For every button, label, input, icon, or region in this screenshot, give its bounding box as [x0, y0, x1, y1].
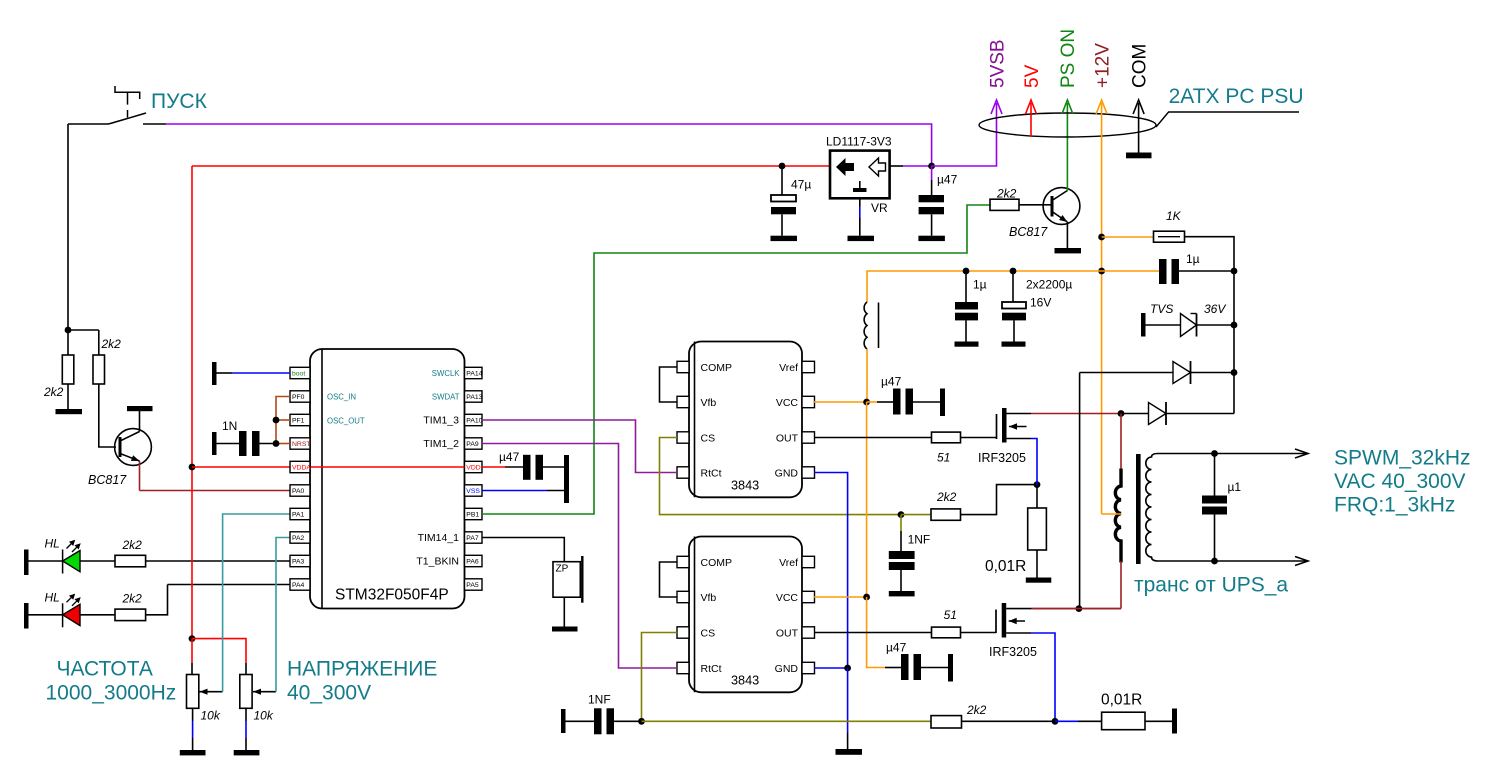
wire RV2 to ground — [245, 708, 247, 721]
wire Q2 collector to PS ON arrow (green) — [1066, 103, 1068, 191]
svg-text:PB1: PB1 — [466, 512, 479, 519]
wire olive to R6 — [901, 514, 931, 516]
svg-text:2k2: 2k2 — [43, 385, 64, 399]
capacitor C5 1µ — [965, 271, 967, 302]
leader line to connector label — [1156, 112, 1299, 127]
resistor R9 51 (lower gate) — [932, 627, 961, 638]
resistor R5 2k2 (PS ON base) — [990, 199, 1019, 210]
capacitor C6 2x2200µ 16V (polarized) — [1012, 271, 1014, 302]
pin COMP of U3 — [677, 556, 689, 567]
svg-text:PF1: PF1 — [292, 418, 305, 425]
wire 5VSB net: switch to regulator output (purple) — [166, 124, 932, 166]
transformer T1 primary winding — [1115, 469, 1121, 563]
wire +12V to C11 (orange) — [1102, 270, 1159, 272]
node junction at top of 2k2 divider — [65, 327, 72, 334]
pin PF0 of U1 — [290, 391, 310, 402]
wire U2 GND (blue) — [814, 473, 848, 669]
ground terminal of green LED — [24, 550, 29, 576]
svg-text:1NF: 1NF — [908, 533, 931, 547]
svg-text:GND: GND — [775, 663, 799, 675]
capacitor C7 1NF — [900, 515, 902, 531]
svg-text:COM: COM — [1129, 44, 1150, 88]
node secondary bottom junction — [1211, 558, 1218, 565]
pin Vref of U2 — [802, 361, 815, 372]
node C11 rail junction — [1231, 268, 1238, 275]
wire left vertical from switch down — [67, 124, 69, 330]
wire PF1 to net (brown) — [276, 419, 290, 421]
svg-text:BC817: BC817 — [88, 473, 127, 487]
svg-text:5VSB: 5VSB — [987, 39, 1008, 88]
pin PA14 of U1 — [465, 367, 483, 378]
resistor R7 51 (upper gate) — [932, 432, 961, 443]
resistor R1 2k2 (vertical) — [62, 355, 74, 384]
node CS sense junction — [898, 511, 905, 518]
svg-text:ЧАСТОТА: ЧАСТОТА — [57, 657, 153, 680]
node TVS rail junction — [1231, 322, 1238, 329]
svg-text:SWCLK: SWCLK — [432, 369, 461, 378]
terminal bar of TVS — [1141, 313, 1146, 337]
pin PA6 of U1 — [465, 555, 483, 566]
pin PA2 of U1 — [290, 532, 310, 543]
wire +12V to primary center tap (orange) — [1102, 513, 1121, 515]
wire R12 to snubber rail — [1185, 237, 1235, 414]
node GND junction — [844, 665, 851, 672]
wire junction to resistor R2 top — [68, 330, 99, 355]
wire transformer primary top (dark red) — [1120, 414, 1122, 471]
wire red branch to VDDA pin — [192, 466, 290, 468]
svg-text:T1_BKIN: T1_BKIN — [416, 555, 459, 567]
pin Vref of U3 — [802, 556, 815, 567]
pin OUT of U3 — [802, 627, 815, 638]
pin NRST of U1 — [290, 438, 310, 449]
wire red supply horizontal to regulator — [192, 165, 830, 167]
arrow COM — [1138, 103, 1140, 153]
wire NRST to net (brown) — [276, 443, 290, 445]
wire red LED to R4 — [80, 614, 115, 616]
svg-text:16V: 16V — [1030, 296, 1051, 310]
wire R1 to ground — [67, 384, 69, 409]
wire secondary bottom output — [1158, 560, 1308, 562]
wire PA1 to RV1 wiper (teal) — [223, 514, 290, 692]
svg-text:PA3: PA3 — [292, 559, 305, 566]
terminal bar right of R11 — [1172, 709, 1177, 734]
op-amp U1 STM32F050F4P body — [310, 349, 465, 609]
voltage regulator VR LD1117-3V3 — [830, 151, 890, 199]
pin PA7 of U1 — [465, 532, 483, 543]
svg-text:+12V: +12V — [1092, 43, 1113, 88]
svg-text:TIM1_2: TIM1_2 — [423, 438, 459, 450]
wire Q3 drain (dark red) — [1031, 413, 1121, 415]
wire RV1 to ground — [192, 708, 194, 721]
wire orange rail to filter caps — [867, 271, 1102, 302]
node 1K branch — [1098, 234, 1105, 241]
svg-text:LD1117-3V3: LD1117-3V3 — [826, 135, 892, 149]
resistor R6 2k2 (sense) — [931, 509, 961, 520]
wire U2 OUT to gate resistor — [814, 437, 932, 439]
connector ellipse 2ATX PC PSU — [979, 113, 1156, 137]
node 1µ cap junction — [963, 268, 970, 275]
pin PA0 of U1 — [290, 485, 310, 496]
wire regulator ground lead — [859, 198, 861, 206]
pin VCC of U3 — [802, 591, 815, 602]
wire boot terminal — [217, 372, 233, 374]
ground bar right of C2 — [564, 455, 569, 503]
ground below C3 — [771, 236, 798, 241]
wire R6 to shunt top — [961, 485, 1038, 515]
svg-text:2k2: 2k2 — [101, 337, 122, 351]
wire TIM1_2 PA9 to U3 RtCt (purple) — [482, 444, 677, 669]
svg-text:CS: CS — [701, 433, 716, 445]
pin PA1 of U1 — [290, 508, 310, 519]
wire switch right lead — [143, 123, 166, 125]
pin CS of U2 — [677, 432, 689, 443]
pin PA13 of U1 — [465, 391, 483, 402]
node 1µ branch — [1098, 268, 1105, 275]
pin PB1 of U1 — [465, 508, 483, 519]
diode D1 TVS 36V — [1146, 324, 1181, 326]
ground below RV1 — [180, 750, 206, 755]
svg-text:1N: 1N — [222, 419, 237, 433]
node 47µ junction — [779, 163, 786, 170]
wire Q1 emitter to PA0 (dark red) — [139, 461, 141, 491]
pin PA3 of U1 — [290, 555, 310, 566]
capacitor C9 µ47 at U3 VCC — [885, 667, 901, 669]
wire VDDA supply vertical (red) — [191, 166, 193, 639]
node secondary top junction — [1211, 450, 1218, 457]
ground below ZP — [552, 627, 578, 632]
wire PF0 net (brown) — [276, 397, 290, 444]
resistor R12 1K — [1154, 231, 1185, 242]
svg-text:VR: VR — [871, 201, 888, 215]
wire PA2 to RV2 wiper (teal) — [276, 538, 290, 692]
wire +12V to R12 (orange) — [1102, 236, 1154, 238]
pin VDD of U1 — [465, 461, 483, 472]
svg-text:GND: GND — [775, 468, 799, 480]
svg-text:VDDA: VDDA — [292, 465, 311, 472]
svg-text:10k: 10k — [201, 709, 221, 723]
svg-text:TIM14_1: TIM14_1 — [418, 532, 460, 544]
pin Vfb of U3 — [677, 591, 689, 602]
svg-text:1000_3000Hz: 1000_3000Hz — [46, 681, 177, 704]
transistor Q1 BC817 — [115, 429, 152, 466]
node shunt top junction — [1034, 481, 1041, 488]
wire Q4 drain (dark red) — [1032, 608, 1121, 610]
svg-text:40_300V: 40_300V — [287, 681, 371, 704]
svg-text:IRF3205: IRF3205 — [989, 645, 1037, 659]
diode D2 — [1080, 372, 1173, 374]
pin PA5 of U1 — [465, 579, 483, 590]
svg-text:2k2: 2k2 — [966, 703, 987, 717]
svg-text:0,01R: 0,01R — [1101, 692, 1142, 709]
ground below regulator — [848, 236, 875, 241]
pin PF1 of U1 — [290, 414, 310, 425]
wire green LED to R3 — [80, 560, 115, 562]
node Q3 drain junction — [1118, 410, 1125, 417]
wire bottom olive sense line — [642, 720, 932, 722]
pin boot of U1 — [290, 367, 310, 378]
transistor Q4 IRF3205 (lower MOSFET) — [995, 610, 997, 634]
wire R4 to PA4 — [146, 585, 290, 615]
capacitor C8 µ47 at U2 VCC — [867, 401, 877, 403]
op-amp U3 3843 body — [689, 537, 802, 693]
ground below COM — [1126, 153, 1152, 159]
arrow 5V — [1030, 103, 1032, 137]
ground below C4 — [918, 236, 945, 241]
svg-text:NRST: NRST — [292, 441, 311, 448]
svg-text:2k2: 2k2 — [996, 187, 1017, 201]
node PF1 junction — [273, 417, 280, 424]
svg-text:1µ: 1µ — [1186, 252, 1200, 266]
svg-text:CS: CS — [701, 628, 716, 640]
pushbutton switch S1 ПУСК — [115, 86, 140, 99]
svg-text:PA6: PA6 — [466, 559, 479, 566]
resistor R2 2k2 (vertical) — [93, 355, 105, 384]
arrow 5VSB — [991, 100, 1002, 114]
pin GND of U2 — [802, 467, 815, 478]
node U2 VCC junction — [863, 399, 870, 406]
wire U3 CS (olive) — [642, 633, 678, 722]
svg-text:Vref: Vref — [779, 557, 798, 569]
pin Vfb of U2 — [677, 396, 689, 407]
wire ZP to ground — [563, 597, 565, 626]
svg-text:µ1: µ1 — [1228, 480, 1242, 494]
inductor L1 — [864, 302, 867, 349]
svg-text:ZP: ZP — [556, 564, 569, 575]
wire D2 to low side (black vertical) — [1079, 373, 1081, 609]
svg-text:VCC: VCC — [776, 592, 799, 604]
ground of 3843s — [836, 749, 863, 755]
svg-text:RtCt: RtCt — [701, 663, 722, 675]
wire orange down to lower bypass cap — [867, 597, 885, 668]
arrow PS ON — [1062, 100, 1073, 114]
wire GND to ground (blue) — [847, 668, 849, 733]
resistor R11 0,01R (bottom shunt) — [1102, 712, 1145, 730]
svg-text:PA9: PA9 — [466, 441, 479, 448]
svg-text:TVS: TVS — [1150, 302, 1173, 316]
node bottom olive junction — [638, 718, 645, 725]
svg-text:PA2: PA2 — [292, 535, 305, 542]
wire Q2 emitter to ground — [1066, 222, 1068, 248]
svg-text:PS ON: PS ON — [1058, 29, 1079, 88]
capacitor C10 1NF (bottom) — [561, 709, 566, 733]
svg-text:3843: 3843 — [731, 674, 759, 688]
svg-text:0,01R: 0,01R — [985, 558, 1026, 575]
svg-text:2ATX PC PSU: 2ATX PC PSU — [1169, 85, 1304, 108]
wire L1 to VCC rail (orange) — [866, 349, 868, 402]
node U3 VCC junction — [863, 594, 870, 601]
node red supply to pots — [189, 635, 196, 642]
wire R3 to PA3 — [146, 560, 290, 562]
svg-text:BC817: BC817 — [1009, 225, 1048, 239]
wire +12V rail vertical (orange) — [1101, 103, 1103, 514]
svg-text:5V: 5V — [1022, 64, 1043, 88]
svg-text:2k2: 2k2 — [122, 592, 143, 606]
wire Q1 collector up — [139, 411, 141, 432]
svg-text:SWDAT: SWDAT — [432, 393, 460, 402]
potentiometer RV2 10k — [240, 675, 252, 709]
wire red to pot RV2 — [192, 639, 246, 663]
svg-text:IRF3205: IRF3205 — [978, 451, 1026, 465]
wire R7 to Q3 gate — [961, 437, 997, 439]
wire transformer primary bottom (dark red) — [1120, 561, 1122, 609]
svg-text:OSC_IN: OSC_IN — [327, 393, 356, 402]
wire ground to red LED — [29, 614, 63, 616]
wire PB1 to PS-ON circuit (green) — [482, 205, 990, 514]
svg-text:1K: 1K — [1166, 209, 1182, 223]
pin PA9 of U1 — [465, 438, 483, 449]
svg-text:PF0: PF0 — [292, 394, 305, 401]
wire regulator output — [890, 165, 903, 167]
wire R9 to Q4 gate — [961, 632, 997, 634]
svg-text:НАПРЯЖЕНИЕ: НАПРЯЖЕНИЕ — [287, 657, 437, 680]
svg-text:36V: 36V — [1204, 302, 1226, 316]
pin PA4 of U1 — [290, 579, 310, 590]
diode D3 — [1121, 413, 1149, 415]
svg-text:3843: 3843 — [731, 479, 759, 493]
wire COMP-Vfb loop of U2 — [660, 367, 678, 402]
svg-text:HL: HL — [45, 590, 60, 604]
terminal bar at boot pin — [212, 362, 217, 385]
terminal bar above Q1 collector — [127, 406, 153, 411]
svg-text:VSS: VSS — [466, 488, 480, 495]
arrow +12V — [1096, 100, 1107, 114]
svg-text:PA13: PA13 — [466, 394, 482, 401]
wire VDD to C2 (red stub) — [482, 466, 505, 468]
wire junction to R1 top — [67, 330, 69, 355]
svg-text:транс от UPS_a: транс от UPS_a — [1134, 574, 1288, 597]
wire COMP-Vfb loop of U3 — [660, 562, 678, 597]
svg-text:PA1: PA1 — [292, 512, 305, 519]
ground below C5 — [955, 342, 979, 347]
wire red to pot RV1 — [191, 639, 193, 663]
svg-text:HL: HL — [45, 537, 60, 551]
resistor R4 2k2 (red LED) — [115, 609, 146, 621]
svg-text:PA7: PA7 — [466, 535, 479, 542]
svg-text:OUT: OUT — [776, 433, 799, 445]
wire U2 CS sense (olive) — [660, 438, 902, 515]
ground terminal of red LED — [24, 603, 29, 629]
wire 5VSB to connector (purple) — [932, 103, 997, 166]
svg-text:PA14: PA14 — [466, 371, 482, 378]
svg-text:PA4: PA4 — [292, 582, 305, 589]
svg-text:VCC: VCC — [776, 397, 799, 409]
svg-text:µ47: µ47 — [499, 450, 520, 464]
svg-text:boot: boot — [292, 371, 305, 378]
pin VDDA of U1 — [290, 461, 310, 472]
svg-text:FRQ:1_3kHz: FRQ:1_3kHz — [1334, 494, 1455, 517]
wire R8 to ground — [1036, 550, 1038, 578]
transformer T1 core — [1136, 454, 1141, 564]
resistor R8 0,01R shunt (upper) — [1036, 485, 1038, 508]
svg-text:2k2: 2k2 — [936, 490, 957, 504]
wire U3 OUT to gate resistor — [814, 632, 932, 634]
pin CS of U3 — [677, 627, 689, 638]
svg-text:47µ: 47µ — [791, 178, 811, 192]
pin OUT of U2 — [802, 432, 815, 443]
wire R11 to terminal — [1145, 720, 1172, 722]
capacitor C11 1µ — [1159, 259, 1167, 284]
capacitor C3 47µ (polarized) — [781, 166, 783, 195]
node VDDA branch — [189, 464, 196, 471]
wire Q3 source (blue) — [1031, 439, 1037, 485]
svg-text:ПУСК: ПУСК — [151, 90, 208, 113]
wire VDDA to VDD internal (red) — [311, 466, 465, 468]
wire orange VCC vertical — [866, 402, 868, 597]
svg-text:VAC 40_300V: VAC 40_300V — [1334, 470, 1466, 493]
node 2x2200µ junction — [1010, 268, 1017, 275]
potentiometer RV1 10k — [187, 675, 199, 709]
svg-text:VDD: VDD — [466, 465, 480, 472]
wire R10 to lower shunt — [962, 720, 1056, 722]
wire ground to green LED — [29, 560, 63, 562]
svg-text:TIM1_3: TIM1_3 — [423, 414, 459, 426]
ground below R1 — [56, 409, 83, 414]
node regulator output junction — [928, 163, 935, 170]
svg-text:Vref: Vref — [779, 362, 798, 374]
wire shunt junction to R11 (blue stub) — [1055, 720, 1078, 722]
transistor Q2 BC817 — [1043, 188, 1080, 225]
transformer T1 secondary winding — [1146, 454, 1158, 562]
svg-text:µ47: µ47 — [881, 375, 902, 389]
capacitor C1 1N — [212, 432, 217, 455]
svg-text:PA10: PA10 — [466, 418, 482, 425]
svg-text:STM32F050F4P: STM32F050F4P — [335, 587, 449, 604]
LED HL2 red — [62, 603, 64, 627]
svg-text:COMP: COMP — [701, 362, 733, 374]
svg-text:RtCt: RtCt — [701, 468, 722, 480]
svg-text:2k2: 2k2 — [122, 538, 143, 552]
wire R5 to Q2 base — [1019, 204, 1052, 206]
ground below R8 — [1026, 578, 1052, 583]
svg-text:51: 51 — [944, 608, 957, 622]
svg-text:10k: 10k — [254, 709, 274, 723]
svg-text:1NF: 1NF — [588, 693, 611, 707]
pin COMP of U2 — [677, 361, 689, 372]
ground below C6 — [1002, 342, 1026, 347]
svg-text:PA5: PA5 — [466, 582, 479, 589]
svg-text:1µ: 1µ — [973, 278, 987, 292]
wire PA7 to buzzer ZP — [482, 538, 564, 562]
svg-text:51: 51 — [937, 451, 950, 465]
wire U3 GND (blue) — [814, 667, 848, 669]
wire U2 VCC (orange) — [814, 401, 867, 403]
svg-text:COMP: COMP — [701, 557, 733, 569]
ground below Q2 — [1055, 248, 1082, 253]
pin PA10 of U1 — [465, 414, 483, 425]
node lower shunt junction — [1052, 718, 1059, 725]
wire Q4 source (blue) — [1031, 633, 1055, 721]
pin RtCt of U3 — [677, 662, 689, 673]
ground below RV2 — [234, 750, 260, 755]
svg-text:µ47: µ47 — [937, 173, 958, 187]
svg-text:SPWM_32kHz: SPWM_32kHz — [1334, 447, 1471, 470]
svg-text:PA0: PA0 — [292, 488, 305, 495]
svg-text:2x2200µ: 2x2200µ — [1026, 278, 1072, 292]
wire R2 to Q1 base — [99, 384, 116, 447]
wire switch left lead — [68, 123, 109, 125]
node NRST junction — [273, 440, 280, 447]
resistor R10 2k2 (bottom sense) — [931, 716, 962, 728]
pin VSS of U1 — [465, 485, 483, 496]
capacitor C4 µ47 at regulator output — [931, 166, 933, 180]
op-amp U2 3843 body — [689, 342, 802, 498]
svg-text:OUT: OUT — [776, 628, 799, 640]
wire VSS to ground (blue) — [482, 490, 547, 492]
pin GND of U3 — [802, 662, 815, 673]
wire secondary top output — [1158, 453, 1308, 455]
svg-text:µ47: µ47 — [886, 641, 907, 655]
svg-text:Vfb: Vfb — [701, 397, 717, 409]
